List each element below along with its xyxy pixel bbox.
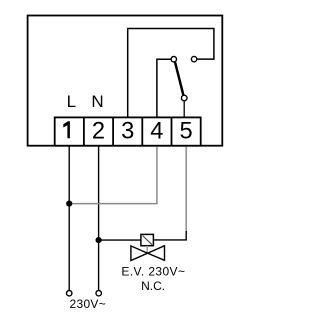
terminal 1 label bbox=[63, 121, 70, 138]
wire: terminal 5 down to valve level (gray) bbox=[185, 147, 187, 234]
wire: terminal 4 down and across to junction A (gray) bbox=[69, 147, 157, 204]
svg-text:L: L bbox=[67, 92, 76, 111]
wire: terminal 2 down to supply bbox=[98, 146, 100, 290]
terminal block outline bbox=[55, 117, 201, 145]
svg-text:N.C.: N.C. bbox=[141, 279, 165, 293]
junction dot A bbox=[66, 201, 72, 207]
thermostat body outline bbox=[28, 16, 223, 146]
svg-text:2: 2 bbox=[92, 118, 105, 144]
terminal divider 2|3 bbox=[112, 117, 114, 145]
valve solenoid coil square bbox=[141, 234, 154, 245]
common contact circle bbox=[181, 95, 187, 101]
coil diagonal bbox=[143, 236, 153, 245]
valve body right triangle bbox=[148, 246, 165, 261]
svg-text:5: 5 bbox=[180, 118, 193, 144]
supply terminal circle L bbox=[67, 291, 72, 296]
wire: junction B to valve coil bbox=[99, 239, 141, 241]
svg-text:4: 4 bbox=[150, 118, 163, 144]
svg-text:N: N bbox=[91, 92, 103, 111]
wire: terminal 3 up and over to NC contact bbox=[128, 29, 214, 118]
pivot contact circle bbox=[171, 57, 176, 62]
svg-text:E.V. 230V~: E.V. 230V~ bbox=[121, 264, 185, 278]
terminal divider 3|4 bbox=[141, 117, 143, 145]
terminal divider 4|5 bbox=[171, 117, 173, 145]
junction dot B bbox=[96, 237, 102, 243]
supply terminal circle N bbox=[96, 291, 101, 296]
svg-text:3: 3 bbox=[121, 118, 134, 144]
svg-text:230V~: 230V~ bbox=[70, 297, 107, 311]
NC contact circle bbox=[191, 56, 196, 61]
switch lever bbox=[175, 62, 183, 95]
valve body left triangle bbox=[131, 246, 148, 261]
wire: terminal 1 down to supply bbox=[68, 146, 70, 290]
wire: common contact down to terminal 5 bbox=[183, 101, 185, 117]
terminal divider 1|2 bbox=[83, 117, 85, 145]
wire: valve coil right side up corner bbox=[154, 231, 187, 240]
connector: coil to valve body (gray) bbox=[146, 246, 148, 253]
wire: terminal 4 up to pivot contact bbox=[157, 59, 171, 117]
